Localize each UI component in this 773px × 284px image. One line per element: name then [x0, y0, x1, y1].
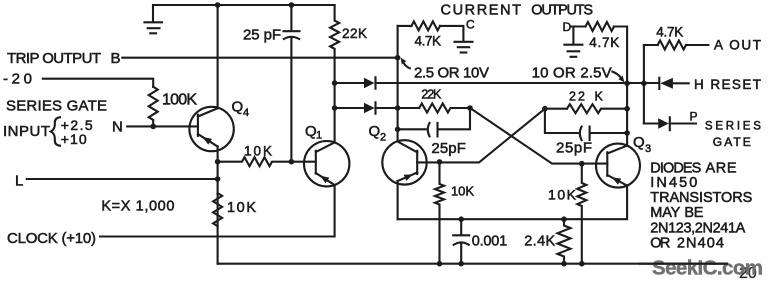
svg-text:Q: Q: [232, 99, 244, 116]
svg-text:2N123,2N241A: 2N123,2N241A: [650, 221, 745, 237]
wire H reset row (long): [335, 82, 659, 84]
svg-text:OR: OR: [650, 236, 670, 252]
wire clock line to Q1 emitter: [100, 185, 335, 237]
svg-text:B: B: [111, 50, 121, 67]
wire bottom rail overdraw through watermark: [640, 263, 727, 265]
svg-text:INPUT: INPUT: [3, 123, 50, 140]
diode D2 (to Q2 collector): [364, 103, 375, 114]
svg-text:K=X 1,000: K=X 1,000: [101, 199, 174, 215]
svg-text:ARE: ARE: [706, 161, 737, 177]
svg-text:10 OR 2.5V: 10 OR 2.5V: [532, 65, 612, 82]
node 22K right / cross coupling: [542, 106, 548, 112]
emitter rail: [398, 186, 627, 220]
resistor 4.7K (D branch): [586, 22, 615, 31]
svg-text:OUTPUTS: OUTPUTS: [531, 3, 593, 19]
node 22K right / rail: [624, 106, 630, 112]
node trip output B / Q2 collector: [395, 55, 401, 61]
svg-text:Q: Q: [369, 123, 381, 140]
wire trip output B line: [122, 57, 397, 59]
resistor 10K (Q3 base return): [577, 164, 586, 264]
transistor Q3: [596, 144, 640, 188]
svg-text:0.001: 0.001: [472, 234, 508, 250]
transistor Q1: [304, 141, 349, 186]
node 0.001 top: [458, 216, 464, 222]
bottom rail: [218, 263, 727, 265]
svg-text:3: 3: [645, 143, 651, 155]
arrow callout 2.5 OR 10V: [403, 62, 410, 68]
svg-text:25 pF: 25 pF: [243, 27, 281, 44]
resistor 10K (Q2 base return): [435, 162, 444, 264]
svg-text:2N404: 2N404: [677, 236, 724, 252]
wire Q2 emitter to emitter rail: [397, 181, 399, 219]
svg-text:K: K: [595, 90, 604, 104]
wire diode row 2 / 22K left row: [335, 107, 420, 109]
wire current output C branch: [398, 26, 464, 41]
svg-text:100K: 100K: [162, 92, 197, 109]
diode H reset (points left): [658, 78, 660, 89]
svg-text:C: C: [466, 18, 475, 32]
svg-text:22K: 22K: [342, 26, 367, 41]
svg-text:P: P: [690, 110, 698, 124]
capacitor C 25pF (top): [284, 5, 300, 162]
transistor Q2: [382, 140, 426, 184]
wire N input line: [127, 125, 198, 127]
node 10K top on Q2 base row: [437, 159, 443, 165]
svg-text:MAY: MAY: [650, 205, 680, 221]
svg-text:+10: +10: [61, 131, 87, 147]
node L line junction: [215, 176, 221, 182]
wire Q4 collector vertical: [217, 5, 219, 108]
resistor 4.7K (A out): [644, 44, 658, 46]
resistor 2.4K: [558, 219, 571, 264]
node junction top rail / Q4 collector: [215, 2, 221, 8]
node diode row2 / Q2 collector: [395, 105, 401, 111]
svg-text:SeekIC.com: SeekIC.com: [652, 257, 763, 280]
svg-text:2.4K: 2.4K: [524, 234, 555, 250]
node 22K top / diode row1: [332, 80, 338, 86]
node diode row2 left: [332, 105, 338, 111]
svg-text:4.7K: 4.7K: [589, 35, 619, 50]
svg-text:2: 2: [380, 132, 386, 144]
svg-text:CLOCK (+10): CLOCK (+10): [7, 230, 96, 247]
resistor 4.7K (C branch): [412, 21, 441, 30]
svg-text:Q: Q: [633, 134, 645, 151]
wire top supply rail: [153, 5, 335, 22]
node Q4 emitter / 10K row: [215, 159, 221, 165]
resistor 10K (horizontal to Q1 base): [218, 157, 316, 166]
svg-text:4.7K: 4.7K: [656, 25, 683, 40]
wire cross-coupling diagonal A (22K-left to Q3 base): [470, 108, 607, 164]
svg-text:25pF: 25pF: [556, 140, 592, 157]
ground (D output) stub: [572, 27, 574, 44]
node 22K left / cross-coupling: [467, 105, 473, 111]
node 10K top on Q3 base row: [579, 161, 585, 167]
svg-text:N: N: [112, 119, 123, 136]
resistor 10K (vertical at Q4 emitter): [213, 193, 222, 226]
resistor 22K (right coupling): [545, 108, 567, 110]
ground (top left): [145, 22, 163, 33]
svg-text:CURRENT: CURRENT: [441, 3, 522, 19]
wire current output D branch: [571, 27, 627, 146]
node 10K right bottom: [579, 261, 585, 267]
diode D1 (to H reset row): [364, 78, 375, 89]
wire P series gate row: [644, 122, 696, 124]
svg-text:10K: 10K: [548, 187, 577, 203]
resistor 22K (left coupling): [419, 104, 470, 113]
svg-text:4.7K: 4.7K: [415, 34, 442, 49]
node H reset rail: [624, 81, 630, 87]
svg-text:TRANSISTORS: TRANSISTORS: [650, 190, 752, 206]
node A-out branch / H reset: [641, 81, 647, 87]
wire -20 line: [43, 79, 153, 87]
node 2.4K bottom: [561, 261, 567, 267]
svg-text:Q: Q: [305, 123, 317, 140]
svg-text:IN450: IN450: [650, 175, 697, 191]
svg-text:BE: BE: [684, 205, 703, 221]
diode P series gate (points right): [658, 118, 669, 129]
brace input: [51, 117, 60, 145]
svg-text:-20: -20: [3, 71, 32, 88]
ground (C output): [455, 42, 473, 53]
svg-text:SERIES GATE: SERIES GATE: [6, 98, 107, 115]
node N / 100K junction: [150, 124, 156, 130]
capacitor 25pF (right coupling): [545, 109, 627, 140]
svg-text:TRIP OUTPUT: TRIP OUTPUT: [7, 50, 101, 67]
wire A-out branch vertical: [643, 45, 645, 124]
svg-text:22K: 22K: [421, 88, 442, 102]
svg-text:1: 1: [316, 130, 322, 142]
svg-text:A OUT: A OUT: [714, 38, 761, 53]
transistor Q4: [189, 107, 233, 151]
node 25pF right / rail: [624, 130, 630, 136]
wire cross-coupling diagonal B (22K-right to Q2 base): [417, 109, 545, 163]
wire L line: [27, 178, 218, 180]
svg-text:L: L: [15, 173, 23, 190]
node 10K left bottom: [437, 261, 443, 267]
node 0.001 bottom: [458, 261, 464, 267]
capacitor 25pF (left coupling): [398, 108, 470, 136]
node junction top rail / 25pF: [289, 2, 295, 8]
ground (D output): [564, 45, 582, 57]
svg-text:10K: 10K: [451, 184, 474, 199]
node Q2 collector / 25pF row: [395, 127, 401, 133]
svg-text:25pF: 25pF: [431, 140, 466, 157]
arrow callout 10 OR 2.5V: [612, 72, 620, 78]
svg-text:10K: 10K: [227, 200, 256, 216]
wire Q4 emitter vertical to bottom rail: [217, 147, 219, 264]
svg-text:2.5 OR 10V: 2.5 OR 10V: [414, 65, 489, 82]
svg-text:10K: 10K: [244, 144, 272, 159]
node 25pF bottom / Q1 base row: [289, 159, 295, 165]
resistor R 100K: [149, 87, 158, 127]
svg-text:4: 4: [243, 107, 249, 119]
node 2.4K top: [561, 216, 567, 222]
resistor 22K (top): [330, 5, 339, 142]
wire Q2 collector node vertical: [397, 26, 399, 142]
capacitor 0.001: [453, 219, 469, 264]
